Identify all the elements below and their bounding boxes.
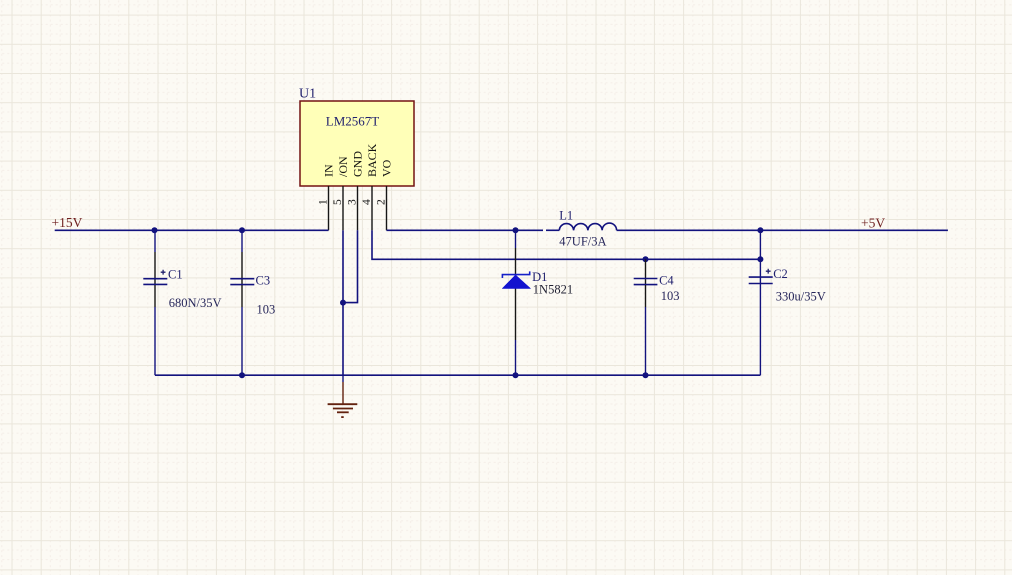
svg-text:330u/35V: 330u/35V bbox=[776, 290, 826, 304]
svg-text:/ON: /ON bbox=[336, 156, 350, 177]
wire +5V rail bbox=[617, 229, 948, 231]
junction C4 bottom bbox=[643, 372, 649, 378]
junction D1 top bbox=[513, 227, 519, 233]
svg-text:LM2567T: LM2567T bbox=[326, 114, 380, 129]
svg-text:47UF/3A: 47UF/3A bbox=[559, 235, 606, 249]
svg-text:U1: U1 bbox=[299, 87, 316, 102]
svg-text:103: 103 bbox=[257, 303, 276, 317]
pin 1 IN bbox=[328, 186, 330, 230]
capacitor C4 bbox=[634, 259, 658, 375]
svg-text:C2: C2 bbox=[773, 267, 788, 281]
svg-text:5: 5 bbox=[332, 199, 344, 205]
svg-text:+5V: +5V bbox=[861, 216, 885, 231]
pin 2 VO bbox=[386, 186, 388, 230]
wire GND down and left bbox=[343, 230, 358, 302]
wire inductor left lead bbox=[546, 229, 559, 231]
svg-text:2: 2 bbox=[375, 199, 387, 205]
junction C1 top bbox=[152, 227, 158, 233]
junction GND node bbox=[340, 300, 346, 306]
junction C2 feedback bbox=[757, 256, 763, 262]
svg-text:+15V: +15V bbox=[52, 215, 83, 230]
pin 5 /ON bbox=[342, 186, 344, 230]
svg-text:BACK: BACK bbox=[365, 143, 379, 177]
svg-text:680N/35V: 680N/35V bbox=[169, 296, 222, 310]
svg-text:IN: IN bbox=[321, 164, 335, 177]
svg-text:C3: C3 bbox=[256, 274, 271, 288]
svg-text:103: 103 bbox=[661, 289, 680, 303]
junction C2 top bbox=[757, 227, 763, 233]
svg-text:1: 1 bbox=[317, 199, 329, 205]
svg-text:C1: C1 bbox=[168, 268, 183, 282]
svg-text:3: 3 bbox=[346, 199, 358, 205]
svg-text:VO: VO bbox=[379, 159, 393, 177]
wire /ON down bbox=[342, 230, 344, 302]
svg-text:1N5821: 1N5821 bbox=[533, 282, 573, 296]
junction C3 bottom bbox=[239, 372, 245, 378]
svg-text:GND: GND bbox=[350, 151, 364, 177]
pin 4 BACK bbox=[371, 186, 373, 230]
pin 3 GND bbox=[357, 186, 359, 230]
wire BACK feedback vertical bbox=[372, 230, 760, 259]
junction C4 top bbox=[643, 256, 649, 262]
svg-text:C4: C4 bbox=[659, 274, 674, 288]
IC U1 LM2567T body bbox=[300, 101, 414, 186]
wire VO to switch node bbox=[387, 229, 544, 231]
wire GND node to bottom rail bbox=[342, 303, 344, 376]
wire bottom rail bbox=[155, 374, 760, 376]
svg-text:4: 4 bbox=[361, 199, 373, 205]
capacitor C3 bbox=[230, 230, 254, 375]
junction C3 top bbox=[239, 227, 245, 233]
wire +15V rail bbox=[55, 229, 329, 231]
capacitor C2 bbox=[749, 230, 773, 375]
svg-text:L1: L1 bbox=[559, 209, 573, 223]
inductor L1 bbox=[559, 223, 616, 230]
diode D1 (Schottky) bbox=[502, 230, 530, 375]
ground bbox=[328, 375, 358, 417]
capacitor C1 bbox=[143, 230, 167, 375]
junction D1 bottom bbox=[513, 372, 519, 378]
